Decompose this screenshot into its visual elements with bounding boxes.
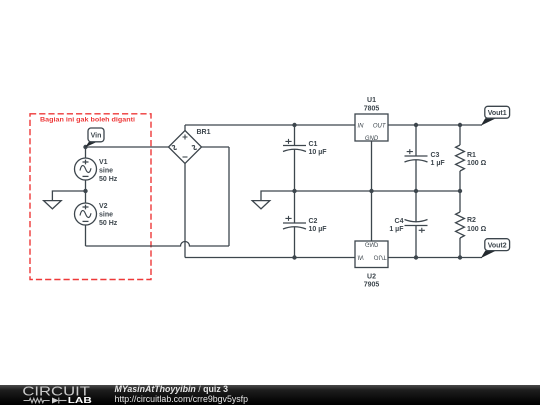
- flag Vin: [85, 128, 104, 147]
- svg-text:50 Hz: 50 Hz: [99, 220, 118, 227]
- node C1 top: [292, 123, 296, 127]
- node V1-V2 junction: [83, 189, 87, 193]
- node C3 bottom / C4 top: [414, 189, 418, 193]
- capacitor C4 (flipped): [405, 191, 428, 258]
- wire Vin node down to V1 top: [85, 147, 87, 158]
- label C1 10 uF: [309, 141, 328, 156]
- label R2 100 ohm: [467, 217, 487, 233]
- svg-text:OUT: OUT: [373, 123, 387, 129]
- regulator U2: [355, 241, 388, 268]
- wire Vin node to BR1 left: [86, 146, 169, 148]
- label R1 100 ohm: [467, 152, 487, 167]
- svg-text:sine: sine: [99, 212, 113, 219]
- node C2 bottom: [292, 255, 296, 259]
- flag Vout2: [481, 239, 510, 258]
- svg-text:LAB: LAB: [68, 395, 92, 405]
- wire junction to V2 top: [85, 191, 87, 203]
- node C3 top: [414, 123, 418, 127]
- node C1 bottom / C2 top: [292, 189, 296, 193]
- label U1 7805: [364, 97, 380, 113]
- wire AC return vertical up to BR1 right: [228, 147, 230, 246]
- regulator U1: [355, 114, 388, 142]
- footer logo squiggle wire with resistor and diode: [24, 398, 67, 404]
- red annotation box: [30, 114, 151, 280]
- svg-text:C4: C4: [395, 218, 404, 225]
- svg-text:50 Hz: 50 Hz: [99, 176, 118, 183]
- svg-text:IN: IN: [358, 123, 365, 129]
- svg-text:U1: U1: [367, 97, 376, 104]
- svg-text:Vout1: Vout1: [488, 110, 507, 117]
- wire lower rail to U2 IN: [185, 257, 355, 259]
- wire junction to ground (left): [52, 191, 85, 201]
- capacitor C2: [283, 191, 306, 258]
- svg-text:1 µF: 1 µF: [389, 226, 404, 233]
- capacitor C1: [283, 125, 306, 191]
- svg-text:10 µF: 10 µF: [309, 149, 328, 156]
- node U1 GND at mid rail: [369, 189, 373, 193]
- svg-text:OUT: OUT: [374, 254, 388, 260]
- svg-text:V2: V2: [99, 203, 108, 210]
- node R1 top: [458, 123, 462, 127]
- wire V1 bottom to junction: [85, 180, 87, 191]
- label V1 sine 50 Hz: [99, 159, 118, 183]
- label V2 sine 50 Hz: [99, 203, 118, 227]
- flag Vout1: [481, 106, 510, 125]
- svg-text:MYasinAtThoyyibin / quiz 3: MYasinAtThoyyibin / quiz 3: [115, 384, 229, 394]
- svg-text:C2: C2: [309, 218, 318, 225]
- ground (middle): [252, 201, 270, 209]
- resistor R2: [456, 191, 465, 258]
- node Vin junction: [83, 145, 87, 149]
- wire U2 GND up to mid rail: [371, 191, 373, 241]
- wire mid ground rail: [261, 191, 460, 201]
- node C4 bottom: [414, 255, 418, 259]
- svg-text:10 µF: 10 µF: [309, 226, 328, 233]
- resistor R1: [456, 125, 465, 191]
- svg-text:R1: R1: [467, 152, 476, 159]
- svg-text:GND: GND: [365, 241, 379, 247]
- label U2 7905: [364, 273, 380, 288]
- svg-text:Bagian ini gak boleh diganti: Bagian ini gak boleh diganti: [40, 117, 135, 124]
- wire U1 GND down to mid rail: [371, 141, 373, 191]
- svg-text:7905: 7905: [364, 281, 380, 288]
- wire positive rail BR1 to U1 IN: [185, 124, 355, 126]
- bridge rectifier BR1: [169, 131, 202, 164]
- svg-text:http://circuitlab.com/crre9bgv: http://circuitlab.com/crre9bgv5ysfp: [115, 394, 249, 404]
- svg-text:100 Ω: 100 Ω: [467, 226, 487, 233]
- node R2 bottom: [458, 255, 462, 259]
- label C3 1 uF: [431, 152, 446, 167]
- svg-text:V1: V1: [99, 159, 108, 166]
- svg-text:C1: C1: [309, 141, 318, 148]
- svg-text:100 Ω: 100 Ω: [467, 160, 487, 167]
- svg-text:1 µF: 1 µF: [431, 160, 446, 167]
- voltage source V1: [75, 158, 97, 180]
- ground (left): [44, 201, 62, 209]
- wire BR1 bottom to lower rail: [184, 164, 186, 258]
- svg-text:C3: C3: [431, 152, 440, 159]
- svg-text:sine: sine: [99, 168, 113, 175]
- svg-text:U2: U2: [367, 273, 376, 280]
- wire BR1 right corner to AC return: [202, 146, 230, 148]
- wire V2 bottom to return rail: [85, 225, 87, 246]
- node R1 bottom / R2 top: [458, 189, 462, 193]
- label C2 10 uF: [309, 218, 328, 233]
- svg-text:Vin: Vin: [91, 133, 102, 140]
- svg-text:Vout2: Vout2: [488, 242, 507, 249]
- footer bar: [0, 385, 540, 405]
- svg-text:R2: R2: [467, 217, 476, 224]
- capacitor C3: [405, 125, 428, 191]
- wire U1 OUT rail to Vout1: [388, 124, 482, 126]
- voltage source V2: [75, 203, 97, 225]
- wire V2 return rail with hop over BR1 minus wire: [86, 242, 230, 247]
- svg-text:7805: 7805: [364, 106, 380, 113]
- svg-text:IN: IN: [358, 254, 365, 260]
- label C4 1 uF: [389, 218, 404, 233]
- wire U2 OUT rail to Vout2: [388, 257, 482, 259]
- svg-text:BR1: BR1: [197, 129, 211, 136]
- wire BR1 top stub: [184, 125, 186, 131]
